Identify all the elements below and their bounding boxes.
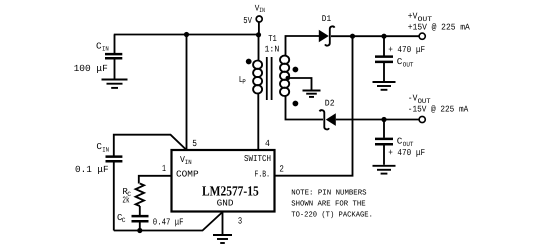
svg-text:2: 2 (279, 163, 284, 174)
svg-text:GND: GND (217, 199, 234, 209)
wire: 0.1uF Cin top to pin 5 (diagonal) (114, 135, 187, 156)
svg-text:OUT: OUT (403, 61, 414, 68)
wire: primary bottom down to IC pin 4 (257, 93, 259, 151)
node: -Vout / Cout junction (381, 117, 386, 122)
wire: 0.1uF Cin bottom stem from rail (113, 162, 115, 230)
svg-text:IN: IN (102, 146, 109, 153)
wire: Vin terminal to rail (258, 22, 260, 35)
ground (below C_IN 100uF) (102, 80, 128, 88)
op-amp U1 LM2577-15 IC box (172, 150, 275, 212)
terminal -V_OUT (419, 116, 425, 122)
svg-text:COMP: COMP (176, 169, 199, 179)
svg-text:LM2577-15: LM2577-15 (202, 185, 259, 200)
node: center tap junction (286, 76, 291, 81)
svg-text:+ 470 μF: + 470 μF (388, 45, 425, 55)
svg-text:3: 3 (238, 215, 243, 226)
wire: rail down to IC pin 5 (186, 35, 188, 151)
svg-text:+V: +V (408, 12, 418, 22)
wire: bottom rail with diagonal to pin 3 (114, 212, 223, 231)
wire: Cin to ground (114, 59, 116, 78)
wire: D2 to -Vout terminal (336, 119, 419, 121)
svg-text:TO-220 (T) PACKAGE.: TO-220 (T) PACKAGE. (291, 211, 373, 220)
transformer T1 secondary winding (280, 56, 289, 96)
wire: secondary bottom to D2 rail (286, 96, 324, 120)
svg-text:D1: D1 (322, 14, 331, 24)
svg-text:IN: IN (259, 7, 265, 14)
diode D2 (Schottky) cathode bar (320, 110, 330, 129)
wire: -Vout node to Cout bottom (383, 120, 385, 138)
capacitor C_OUT (top, 470uF) (375, 57, 393, 62)
svg-text:5: 5 (192, 138, 197, 149)
svg-text:-15V @ 225 mA: -15V @ 225 mA (408, 105, 469, 115)
wire: Cout bottom to ground (383, 145, 385, 165)
ground (IC pin 3) (213, 235, 232, 243)
wire: secondary top to D1 rail (286, 36, 320, 56)
polarity dot (primary) (246, 59, 252, 65)
wire: Rc to Cc (139, 206, 141, 215)
node: Vin junction (256, 32, 261, 37)
svg-text:2k: 2k (122, 195, 129, 205)
wire: Cc to bottom rail (139, 222, 141, 230)
ground (top C_OUT) (373, 82, 396, 90)
svg-text:100 μF: 100 μF (74, 63, 108, 74)
capacitor C_OUT (bottom, 470uF) (375, 139, 393, 144)
svg-text:IN: IN (102, 45, 109, 52)
svg-text:SWITCH: SWITCH (244, 154, 271, 164)
node: +Vout / Cout junction (381, 34, 386, 39)
wire: center tap to ground (286, 78, 312, 90)
svg-text:C: C (397, 57, 403, 67)
svg-text:NOTE: PIN NUMBERS: NOTE: PIN NUMBERS (291, 189, 367, 198)
svg-text:0.1 μF: 0.1 μF (75, 164, 109, 175)
polarity dot (secondary lower) (293, 101, 299, 107)
svg-text:T1: T1 (268, 34, 277, 44)
wire: Cout to ground (383, 63, 385, 81)
terminal V_IN (256, 16, 262, 22)
node: D1 output / feedback junction (350, 34, 355, 39)
svg-text:D2: D2 (325, 98, 335, 108)
polarity dot (secondary upper) (293, 67, 299, 73)
diode D2 triangle (326, 113, 336, 126)
svg-text:5V: 5V (243, 15, 252, 26)
wire: Cin(100uF) top stem (114, 35, 116, 54)
wire: rail down to primary top (258, 35, 260, 62)
svg-text:IN: IN (185, 159, 192, 166)
svg-text:SHOWN ARE FOR THE: SHOWN ARE FOR THE (291, 199, 366, 208)
wire: IC pin 3 (GND) stem (222, 212, 224, 235)
svg-text:+ 470 μF: + 470 μF (388, 148, 425, 158)
transformer core lines (267, 57, 272, 100)
svg-text:C: C (397, 137, 403, 147)
wire: COMP pin 1 to Rc (139, 176, 172, 184)
wire: D1 to +Vout terminal (331, 35, 419, 37)
diode D1 Schottky cathode bar (325, 26, 335, 45)
svg-text:1: 1 (162, 163, 166, 174)
svg-text:0.47 μF: 0.47 μF (153, 217, 184, 228)
capacitor C_IN 100uF (105, 54, 122, 58)
capacitor C_C 0.47uF (132, 216, 149, 221)
node: Cc bottom junction (137, 228, 142, 233)
svg-text:4: 4 (265, 138, 270, 149)
capacitor C_IN 0.1uF (106, 157, 123, 162)
node: junction on rail to pin 5 (184, 32, 189, 37)
terminal +V_OUT (419, 33, 425, 39)
resistor R_C 2k (136, 184, 144, 207)
svg-text:P: P (242, 79, 245, 86)
wire: feedback from D1 node down and to F.B. pin (275, 36, 353, 176)
ground (bottom C_OUT) (373, 166, 396, 174)
svg-text:+15V @ 225 mA: +15V @ 225 mA (408, 23, 471, 33)
svg-text:F.B.: F.B. (255, 169, 271, 179)
diode D1 (Schottky) triangle (319, 30, 329, 43)
svg-text:1:N: 1:N (265, 44, 280, 54)
wire: +Vout node to Cout top (383, 36, 385, 55)
svg-text:C: C (122, 217, 126, 224)
transformer T1 primary winding Lp (253, 60, 262, 93)
ground (center tap) (303, 91, 321, 97)
wire: top input rail (114, 34, 259, 36)
svg-text:-V: -V (408, 94, 418, 104)
